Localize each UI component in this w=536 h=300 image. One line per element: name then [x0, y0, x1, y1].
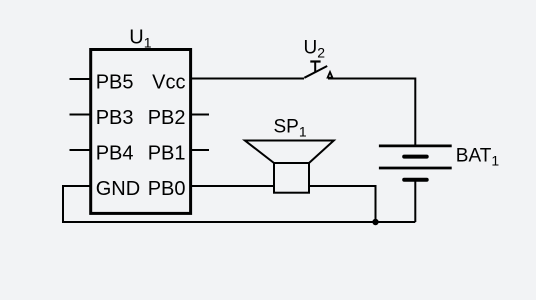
svg-text:GND: GND: [96, 178, 140, 200]
svg-text:PB2: PB2: [148, 107, 186, 129]
svg-text:U2: U2: [304, 38, 326, 61]
pin PB3 stub: [70, 114, 90, 116]
wire PB0 to speaker: [192, 185, 274, 187]
wire switch to battery top: [328, 79, 415, 145]
speaker SP1 cone: [245, 141, 334, 164]
svg-text:Vcc: Vcc: [152, 72, 185, 94]
svg-text:PB5: PB5: [96, 72, 134, 94]
wire battery bottom to ground net: [414, 180, 416, 222]
battery BAT1 plate positive lower: [379, 167, 452, 170]
battery BAT1 plate negative upper: [404, 155, 427, 159]
svg-text:SP1: SP1: [274, 117, 307, 140]
svg-text:PB4: PB4: [96, 143, 134, 165]
switch U2 right contact triangle: [328, 72, 333, 78]
svg-text:BAT1: BAT1: [456, 146, 500, 169]
battery BAT1 plate positive top: [379, 145, 452, 148]
svg-text:PB3: PB3: [96, 107, 134, 129]
wire GND pin down: [63, 186, 90, 222]
speaker SP1 body: [274, 163, 309, 193]
switch U2 actuator stem: [314, 62, 316, 73]
svg-text:U1: U1: [129, 26, 151, 50]
switch U2 lever: [304, 66, 327, 78]
junction dot: [372, 219, 378, 225]
wire speaker to ground net: [309, 186, 376, 222]
switch U2 actuator bar: [310, 60, 320, 62]
svg-text:PB0: PB0: [148, 178, 186, 200]
pin PB2 stub: [192, 114, 209, 116]
wire Vcc to switch: [192, 78, 305, 80]
svg-text:PB1: PB1: [148, 143, 186, 165]
pin PB1 stub: [192, 149, 209, 151]
wire ground bottom rail: [62, 221, 415, 223]
pin PB4 stub: [70, 149, 90, 151]
battery BAT1 plate negative bottom: [404, 178, 427, 182]
IC U1 body: [91, 50, 191, 214]
pin PB5 stub: [70, 78, 90, 80]
